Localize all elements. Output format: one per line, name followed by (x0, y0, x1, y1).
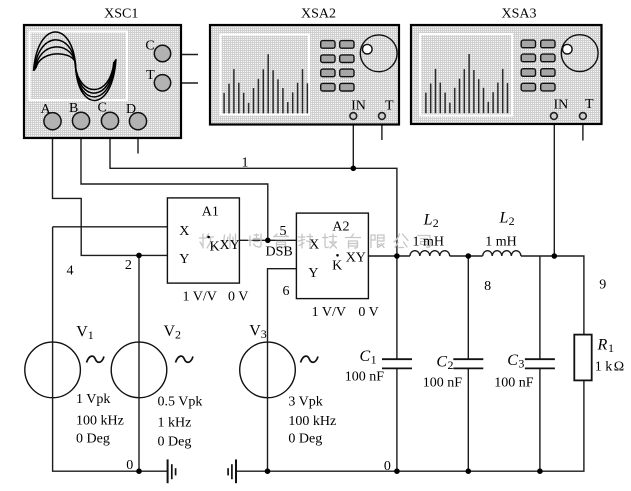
svg-text:Y: Y (179, 252, 189, 267)
svg-text:L: L (499, 209, 509, 226)
svg-text:C: C (145, 39, 154, 54)
svg-text:XY: XY (220, 238, 240, 253)
svg-text:Y: Y (308, 266, 318, 281)
svg-text:V: V (249, 323, 261, 340)
svg-text:A1: A1 (202, 204, 219, 219)
svg-text:1 mH: 1 mH (485, 235, 517, 250)
svg-text:1 k: 1 k (595, 359, 613, 374)
svg-text:DSB: DSB (266, 245, 293, 260)
svg-text:100 nF: 100 nF (345, 370, 385, 385)
svg-text:Ω: Ω (614, 359, 624, 374)
svg-text:X: X (179, 224, 189, 239)
svg-text:2: 2 (433, 216, 439, 230)
svg-text:0 V: 0 V (358, 305, 378, 320)
svg-text:T: T (146, 68, 155, 83)
svg-text:XSA2: XSA2 (301, 7, 336, 22)
svg-text:IN: IN (351, 99, 366, 114)
svg-text:XSC1: XSC1 (104, 7, 138, 22)
svg-text:A: A (41, 102, 52, 117)
svg-text:V: V (76, 324, 88, 341)
svg-text:1 V/V: 1 V/V (183, 290, 217, 305)
svg-text:3: 3 (261, 327, 267, 341)
svg-text:2: 2 (509, 214, 515, 228)
svg-text:3: 3 (518, 357, 524, 371)
svg-text:C: C (98, 101, 107, 116)
svg-text:C: C (360, 348, 371, 365)
svg-text:C: C (436, 354, 447, 371)
svg-text:0 Deg: 0 Deg (288, 432, 322, 447)
svg-text:X: X (309, 237, 319, 252)
svg-text:1: 1 (88, 328, 94, 342)
svg-text:T: T (585, 97, 594, 112)
svg-text:XSA3: XSA3 (501, 7, 536, 22)
svg-text:K: K (210, 240, 220, 255)
svg-text:100 nF: 100 nF (494, 376, 534, 391)
svg-text:T: T (385, 99, 394, 114)
svg-text:100 kHz: 100 kHz (76, 414, 124, 429)
svg-text:1 Vpk: 1 Vpk (76, 392, 110, 407)
svg-text:R: R (597, 337, 608, 354)
svg-text:1 V/V: 1 V/V (312, 305, 346, 320)
svg-text:0.5 Vpk: 0.5 Vpk (158, 395, 203, 410)
svg-text:1 kHz: 1 kHz (158, 416, 192, 431)
svg-text:100 kHz: 100 kHz (288, 414, 336, 429)
svg-text:2: 2 (125, 258, 132, 273)
svg-text:D: D (126, 102, 136, 117)
svg-text:0 Deg: 0 Deg (158, 435, 192, 450)
svg-text:3 Vpk: 3 Vpk (288, 395, 322, 410)
svg-text:XY: XY (346, 250, 366, 265)
svg-text:5: 5 (280, 224, 287, 239)
svg-text:V: V (164, 323, 176, 340)
svg-text:100 nF: 100 nF (423, 376, 463, 391)
svg-text:2: 2 (448, 358, 454, 372)
svg-text:6: 6 (283, 284, 290, 299)
svg-text:0 Deg: 0 Deg (76, 432, 110, 447)
svg-text:K: K (332, 259, 342, 274)
svg-text:0 V: 0 V (228, 290, 248, 305)
svg-text:1 mH: 1 mH (413, 235, 445, 250)
svg-text:B: B (69, 101, 78, 116)
svg-text:4: 4 (67, 264, 74, 279)
svg-text:0: 0 (384, 459, 391, 474)
svg-text:1: 1 (371, 353, 377, 367)
svg-text:A2: A2 (332, 220, 349, 235)
svg-text:1: 1 (608, 341, 614, 355)
svg-text:8: 8 (484, 279, 491, 294)
svg-text:2: 2 (175, 328, 181, 342)
svg-text:1: 1 (242, 155, 249, 170)
svg-text:0: 0 (126, 458, 133, 473)
svg-text:IN: IN (554, 98, 569, 113)
svg-text:9: 9 (599, 278, 606, 293)
svg-text:L: L (423, 212, 433, 229)
svg-text:C: C (507, 352, 518, 369)
